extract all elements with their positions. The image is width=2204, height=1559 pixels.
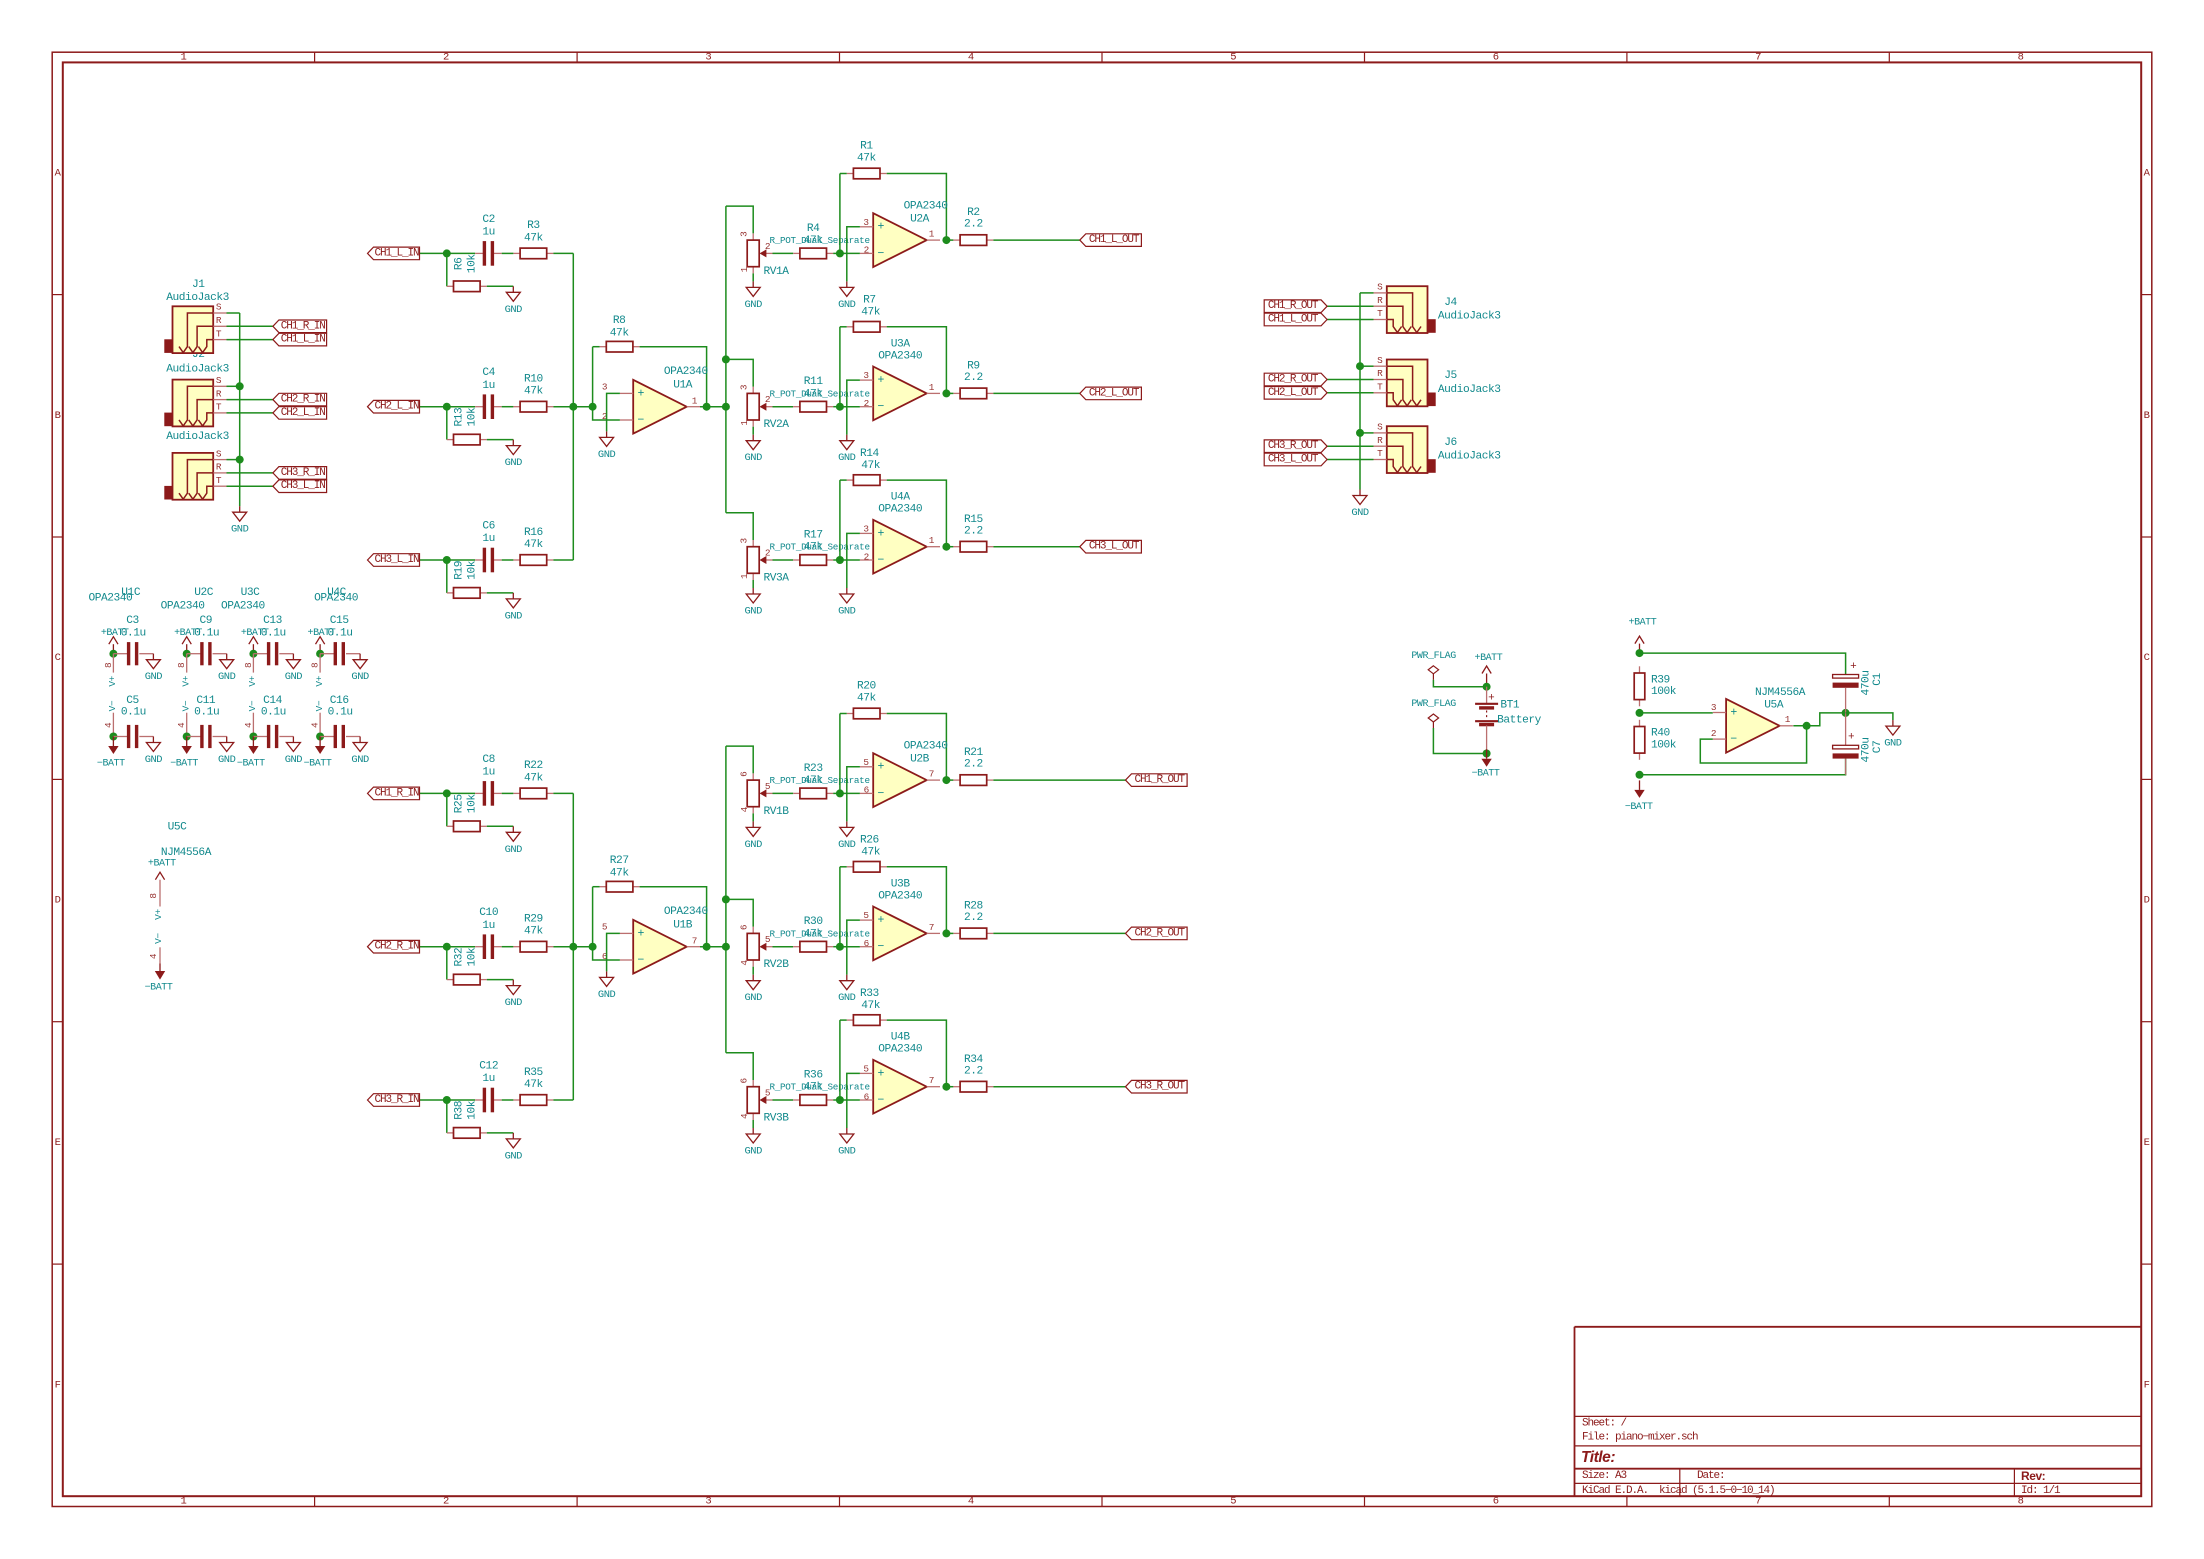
svg-text:5: 5 [863, 757, 869, 768]
svg-text:GND: GND [598, 989, 616, 1001]
capacitor C1 470u [1833, 661, 1884, 713]
svg-text:R39: R39 [1651, 674, 1670, 686]
resistor R2 [953, 207, 993, 245]
resistor R38 [447, 1100, 487, 1138]
svg-text:AudioJack3: AudioJack3 [1438, 311, 1501, 323]
junction [1483, 683, 1491, 691]
wire [833, 406, 840, 408]
svg-text:V−: V− [314, 700, 325, 711]
pin 4 V- of U1C [103, 700, 118, 736]
wire [839, 327, 841, 407]
wire [839, 714, 841, 794]
svg-text:U3C: U3C [241, 587, 261, 599]
wire net distribution bus [725, 746, 727, 1053]
svg-text:7: 7 [1755, 52, 1761, 64]
global label CH1_R_OUT [1264, 300, 1327, 313]
wire [840, 479, 847, 481]
svg-text:2: 2 [864, 398, 869, 409]
wire [700, 946, 726, 948]
svg-text:4: 4 [176, 722, 187, 728]
svg-text:OPA2340: OPA2340 [221, 601, 266, 613]
svg-text:0.1u: 0.1u [261, 628, 286, 640]
junction [836, 1096, 844, 1104]
svg-text:OPA2340: OPA2340 [878, 504, 923, 516]
capacitor C3 [113, 615, 153, 665]
wire [1433, 680, 1486, 687]
svg-text:1: 1 [1785, 714, 1791, 725]
junction [443, 249, 451, 257]
svg-text:OPA2340: OPA2340 [878, 350, 923, 362]
svg-text:47k: 47k [524, 386, 544, 398]
svg-text:2.2: 2.2 [964, 912, 983, 924]
connector J4 AudioJack3 [1374, 282, 1436, 333]
junction [836, 789, 844, 797]
svg-text:CH1_L_IN: CH1_L_IN [281, 334, 326, 346]
svg-text:R22: R22 [524, 760, 543, 772]
capacitor C9 [187, 615, 227, 665]
potentiometer RV2B [739, 924, 870, 971]
connector J6 AudioJack3 [1374, 422, 1436, 473]
wire [446, 253, 448, 286]
svg-text:CH1_R_IN: CH1_R_IN [281, 320, 326, 332]
svg-text:10k: 10k [466, 1100, 478, 1120]
svg-text:U4A: U4A [891, 492, 911, 504]
wire [840, 792, 860, 794]
wire [227, 412, 273, 414]
svg-text:R: R [216, 462, 222, 473]
svg-text:CH3_L_OUT: CH3_L_OUT [1268, 454, 1319, 466]
svg-text:U2B: U2B [910, 754, 930, 766]
svg-text:5: 5 [863, 910, 869, 921]
svg-text:RV2B: RV2B [763, 959, 789, 971]
svg-text:R21: R21 [964, 747, 984, 759]
junction [1483, 750, 1491, 758]
wire [840, 326, 847, 328]
resistor R8 [600, 315, 640, 352]
op-amp U2B [860, 741, 948, 807]
capacitor C4 [475, 367, 502, 419]
ground GND [505, 826, 523, 856]
wire [887, 1020, 947, 1087]
svg-text:0.1u: 0.1u [194, 628, 219, 640]
svg-text:CH2_R_IN: CH2_R_IN [374, 941, 419, 953]
svg-text:47k: 47k [857, 153, 877, 165]
junction [722, 355, 730, 363]
pin 8 V+ of U1C [103, 654, 118, 687]
capacitor C16 [320, 695, 360, 748]
svg-text:10k: 10k [466, 407, 478, 427]
wire [553, 792, 573, 794]
svg-text:−BATT: −BATT [237, 759, 265, 770]
wire [726, 1053, 753, 1080]
ground GND [838, 821, 856, 851]
svg-text:V+: V+ [107, 675, 118, 686]
power -BATT [1472, 749, 1500, 779]
svg-text:CH2_R_OUT: CH2_R_OUT [1268, 374, 1319, 386]
svg-text:RV3B: RV3B [763, 1112, 789, 1124]
svg-text:R40: R40 [1651, 728, 1671, 740]
svg-text:7: 7 [929, 922, 934, 933]
svg-text:C3: C3 [126, 615, 139, 627]
resistor R19 [447, 560, 487, 598]
svg-text:+: + [1850, 661, 1856, 673]
wire [726, 899, 753, 926]
svg-text:C15: C15 [330, 615, 349, 627]
junction [1636, 649, 1644, 657]
ground GND [745, 1128, 763, 1158]
resistor R9 [953, 361, 993, 399]
svg-text:GND: GND [505, 457, 523, 469]
svg-text:R27: R27 [610, 855, 629, 867]
global label CH2_L_IN [368, 400, 420, 413]
svg-text:+: + [877, 1067, 884, 1080]
wire net output jack ground bus [1359, 293, 1361, 490]
potentiometer RV1B [739, 771, 870, 818]
resistor R13 [447, 407, 487, 445]
junction [589, 943, 597, 951]
svg-text:T: T [1377, 382, 1383, 393]
ground GND [505, 286, 523, 316]
svg-text:47k: 47k [804, 928, 824, 940]
battery BT1 [1475, 687, 1542, 754]
power -BATT [145, 964, 173, 994]
svg-text:GND: GND [1351, 507, 1369, 519]
wire [993, 392, 1079, 394]
svg-text:7: 7 [1755, 1496, 1761, 1508]
wire net jack ground bus [239, 313, 241, 506]
svg-text:B: B [55, 410, 61, 422]
svg-text:S: S [1377, 422, 1383, 433]
wire net summing bus [572, 253, 574, 560]
svg-text:+BATT: +BATT [148, 858, 176, 869]
svg-text:1: 1 [739, 420, 750, 426]
svg-text:T: T [1377, 308, 1383, 319]
svg-text:R8: R8 [613, 315, 626, 327]
svg-text:J1: J1 [192, 279, 205, 291]
svg-text:4: 4 [739, 960, 750, 966]
svg-text:0.1u: 0.1u [261, 706, 286, 718]
svg-text:6: 6 [739, 1077, 750, 1083]
svg-text:Sheet: /: Sheet: / [1582, 1418, 1627, 1430]
svg-text:−BATT: −BATT [97, 759, 125, 770]
svg-text:R: R [216, 388, 222, 399]
svg-text:CH3_L_IN: CH3_L_IN [281, 480, 326, 492]
svg-text:47k: 47k [804, 542, 824, 554]
svg-text:R35: R35 [524, 1067, 543, 1079]
wire [840, 406, 860, 408]
wire [227, 459, 240, 461]
wire [946, 239, 953, 241]
svg-text:1: 1 [739, 266, 750, 272]
svg-text:R33: R33 [860, 988, 879, 1000]
svg-text:R30: R30 [804, 916, 824, 928]
svg-text:E: E [55, 1137, 61, 1149]
svg-text:J5: J5 [1444, 370, 1457, 382]
power -BATT [1625, 780, 1653, 812]
svg-text:CH3_R_OUT: CH3_R_OUT [1268, 440, 1319, 452]
svg-text:R20: R20 [857, 681, 877, 693]
junction [316, 650, 324, 658]
wire [887, 327, 947, 394]
ground GND [505, 593, 523, 623]
node CH1_L_IN input [419, 252, 475, 254]
svg-text:CH2_L_OUT: CH2_L_OUT [1268, 387, 1319, 399]
pin 4 V- of U5C [148, 933, 164, 964]
svg-text:V+: V+ [314, 675, 325, 686]
svg-text:4: 4 [243, 722, 254, 728]
wire [887, 867, 947, 934]
svg-text:2: 2 [443, 52, 449, 64]
svg-text:47k: 47k [861, 460, 881, 472]
wire [839, 480, 841, 560]
wire [487, 439, 514, 441]
wire [1360, 292, 1374, 294]
junction [722, 943, 730, 951]
svg-text:RV3A: RV3A [763, 572, 789, 584]
op-amp U5C power unit [161, 821, 212, 859]
svg-text:GND: GND [351, 754, 369, 766]
svg-text:GND: GND [598, 449, 616, 461]
svg-text:−: − [1730, 733, 1737, 746]
svg-text:7: 7 [692, 936, 697, 947]
svg-text:47k: 47k [804, 388, 824, 400]
svg-text:AudioJack3: AudioJack3 [166, 431, 229, 443]
connector J2 AudioJack3 [164, 375, 226, 426]
pin 8 V+ of U5C [148, 880, 164, 920]
svg-text:7: 7 [929, 769, 934, 780]
global label CH1_L_OUT [1264, 313, 1327, 326]
svg-text:6: 6 [864, 1091, 870, 1102]
wire [946, 779, 953, 781]
svg-text:R19: R19 [454, 561, 466, 580]
wire [1640, 653, 1846, 674]
op-amp U2C power unit label [161, 587, 214, 613]
svg-text:3: 3 [602, 382, 608, 393]
svg-text:Battery: Battery [1497, 715, 1542, 727]
potentiometer RV3B [739, 1077, 870, 1124]
wire [1327, 379, 1373, 381]
svg-text:3: 3 [739, 537, 750, 543]
svg-text:3: 3 [705, 52, 711, 64]
ground GND [838, 588, 856, 618]
wire [227, 312, 240, 314]
svg-text:4: 4 [148, 953, 159, 959]
svg-text:OPA2340: OPA2340 [878, 1044, 923, 1056]
wire [946, 932, 953, 934]
svg-text:+: + [1488, 692, 1494, 704]
global label CH1_R_IN [273, 320, 327, 333]
svg-text:4: 4 [310, 722, 321, 728]
svg-text:R15: R15 [964, 514, 983, 526]
capacitor C2 [475, 214, 502, 266]
wire [1486, 683, 1488, 687]
ground GND [351, 737, 369, 767]
junction [942, 543, 950, 551]
svg-text:GND: GND [505, 844, 523, 856]
svg-text:Size: A3: Size: A3 [1582, 1470, 1627, 1482]
capacitor C6 [475, 521, 502, 573]
resistor R10 [513, 374, 553, 413]
wire [502, 252, 514, 254]
resistor R14 [847, 448, 887, 486]
svg-text:−: − [637, 414, 644, 427]
wire [553, 559, 573, 561]
svg-text:R: R [1377, 368, 1383, 379]
svg-text:CH2_R_IN: CH2_R_IN [281, 394, 326, 406]
svg-text:−: − [877, 401, 884, 414]
svg-text:R9: R9 [967, 361, 980, 373]
svg-text:4: 4 [739, 1113, 750, 1119]
svg-text:CH3_R_IN: CH3_R_IN [281, 467, 326, 479]
svg-text:V−: V− [181, 700, 192, 711]
svg-text:3: 3 [863, 523, 869, 534]
junction [183, 733, 191, 741]
svg-text:47k: 47k [524, 232, 544, 244]
svg-text:GND: GND [838, 992, 856, 1004]
svg-text:10k: 10k [466, 947, 478, 967]
wire [840, 559, 860, 561]
wire [833, 252, 840, 254]
svg-text:8: 8 [148, 893, 159, 899]
wire feedback U5A [1700, 726, 1806, 763]
svg-text:2: 2 [864, 551, 869, 562]
wire [487, 979, 514, 981]
resistor R16 [513, 527, 553, 566]
svg-text:V−: V− [107, 700, 118, 711]
wire [847, 227, 860, 282]
wire [833, 1099, 840, 1101]
wire [993, 779, 1125, 781]
wire [227, 325, 273, 327]
svg-text:1u: 1u [482, 767, 495, 779]
wire [593, 887, 620, 960]
junction [722, 895, 730, 903]
svg-text:CH1_R_IN: CH1_R_IN [374, 787, 419, 799]
svg-text:−BATT: −BATT [1472, 768, 1500, 779]
svg-text:−: − [877, 554, 884, 567]
svg-text:GND: GND [285, 671, 303, 683]
svg-text:OPA2340: OPA2340 [161, 601, 206, 613]
pin 4 V- of U4C [310, 700, 325, 736]
svg-text:4: 4 [968, 52, 974, 64]
ground GND [285, 654, 303, 684]
svg-text:RV2A: RV2A [763, 419, 789, 431]
wire [752, 813, 754, 821]
resistor R36 [793, 1069, 833, 1105]
svg-text:R13: R13 [454, 408, 466, 427]
resistor R33 [847, 988, 887, 1026]
wire [840, 1019, 847, 1021]
wire [1327, 305, 1373, 307]
svg-text:GND: GND [745, 839, 763, 851]
svg-text:GND: GND [218, 671, 236, 683]
svg-text:1u: 1u [482, 380, 495, 392]
svg-text:U5C: U5C [168, 821, 188, 833]
global label CH3_R_OUT [1264, 440, 1327, 453]
wire [847, 380, 860, 435]
svg-text:U1B: U1B [673, 919, 693, 931]
svg-text:47k: 47k [524, 539, 544, 551]
ground GND [745, 435, 763, 465]
power +BATT [1475, 653, 1503, 683]
wire [847, 920, 860, 975]
svg-text:S: S [1377, 282, 1383, 293]
svg-text:AudioJack3: AudioJack3 [1438, 451, 1501, 463]
junction [183, 650, 191, 658]
junction [836, 403, 844, 411]
wire [1327, 459, 1373, 461]
svg-text:R7: R7 [863, 295, 876, 307]
svg-text:47k: 47k [804, 775, 824, 787]
svg-text:3: 3 [863, 217, 869, 228]
svg-text:10k: 10k [466, 254, 478, 274]
svg-text:R6: R6 [454, 258, 466, 271]
svg-text:CH3_R_IN: CH3_R_IN [374, 1094, 419, 1106]
svg-text:CH1_L_IN: CH1_L_IN [374, 247, 419, 259]
power +BATT [1629, 617, 1657, 653]
svg-text:BT1: BT1 [1500, 700, 1520, 712]
power +BATT [182, 637, 191, 654]
svg-text:V−: V− [247, 700, 258, 711]
junction [1356, 429, 1364, 437]
wire [227, 339, 273, 341]
svg-text:6: 6 [1493, 52, 1499, 64]
power +BATT [249, 637, 258, 654]
wire [1846, 713, 1893, 720]
wire [752, 580, 754, 588]
svg-text:OPA2340: OPA2340 [904, 741, 949, 753]
svg-text:1u: 1u [482, 227, 495, 239]
wire [640, 887, 707, 947]
ground GND [285, 737, 303, 767]
svg-text:−BATT: −BATT [170, 759, 198, 770]
wire [502, 559, 514, 561]
junction [109, 650, 117, 658]
svg-text:U5A: U5A [1764, 700, 1784, 712]
wire [773, 1099, 794, 1101]
wire [887, 714, 947, 781]
svg-text:CH3_L_OUT: CH3_L_OUT [1089, 541, 1140, 553]
svg-text:−: − [877, 247, 884, 260]
svg-text:CH2_L_OUT: CH2_L_OUT [1089, 387, 1140, 399]
svg-text:GND: GND [218, 754, 236, 766]
svg-text:2: 2 [1711, 728, 1716, 739]
svg-text:−BATT: −BATT [145, 983, 173, 994]
ground GND [598, 971, 616, 1001]
global label CH2_R_IN [273, 393, 327, 406]
wire [773, 559, 794, 561]
svg-text:8: 8 [176, 662, 187, 668]
svg-text:C10: C10 [479, 907, 499, 919]
svg-text:CH2_R_OUT: CH2_R_OUT [1135, 927, 1186, 939]
junction [942, 776, 950, 784]
svg-text:U3B: U3B [891, 878, 911, 890]
wire [887, 174, 947, 241]
junction [249, 650, 257, 658]
svg-text:Rev:: Rev: [2021, 1469, 2045, 1483]
svg-text:GND: GND [505, 1150, 523, 1162]
wire [993, 1086, 1125, 1088]
junction [722, 403, 730, 411]
svg-text:R14: R14 [860, 448, 880, 460]
wire [446, 1100, 448, 1133]
svg-text:CH3_L_IN: CH3_L_IN [374, 554, 419, 566]
svg-text:47k: 47k [861, 1000, 881, 1012]
svg-text:2.2: 2.2 [964, 525, 983, 537]
svg-text:E: E [2144, 1137, 2150, 1149]
svg-text:1u: 1u [482, 1073, 495, 1085]
svg-text:U2C: U2C [194, 587, 214, 599]
